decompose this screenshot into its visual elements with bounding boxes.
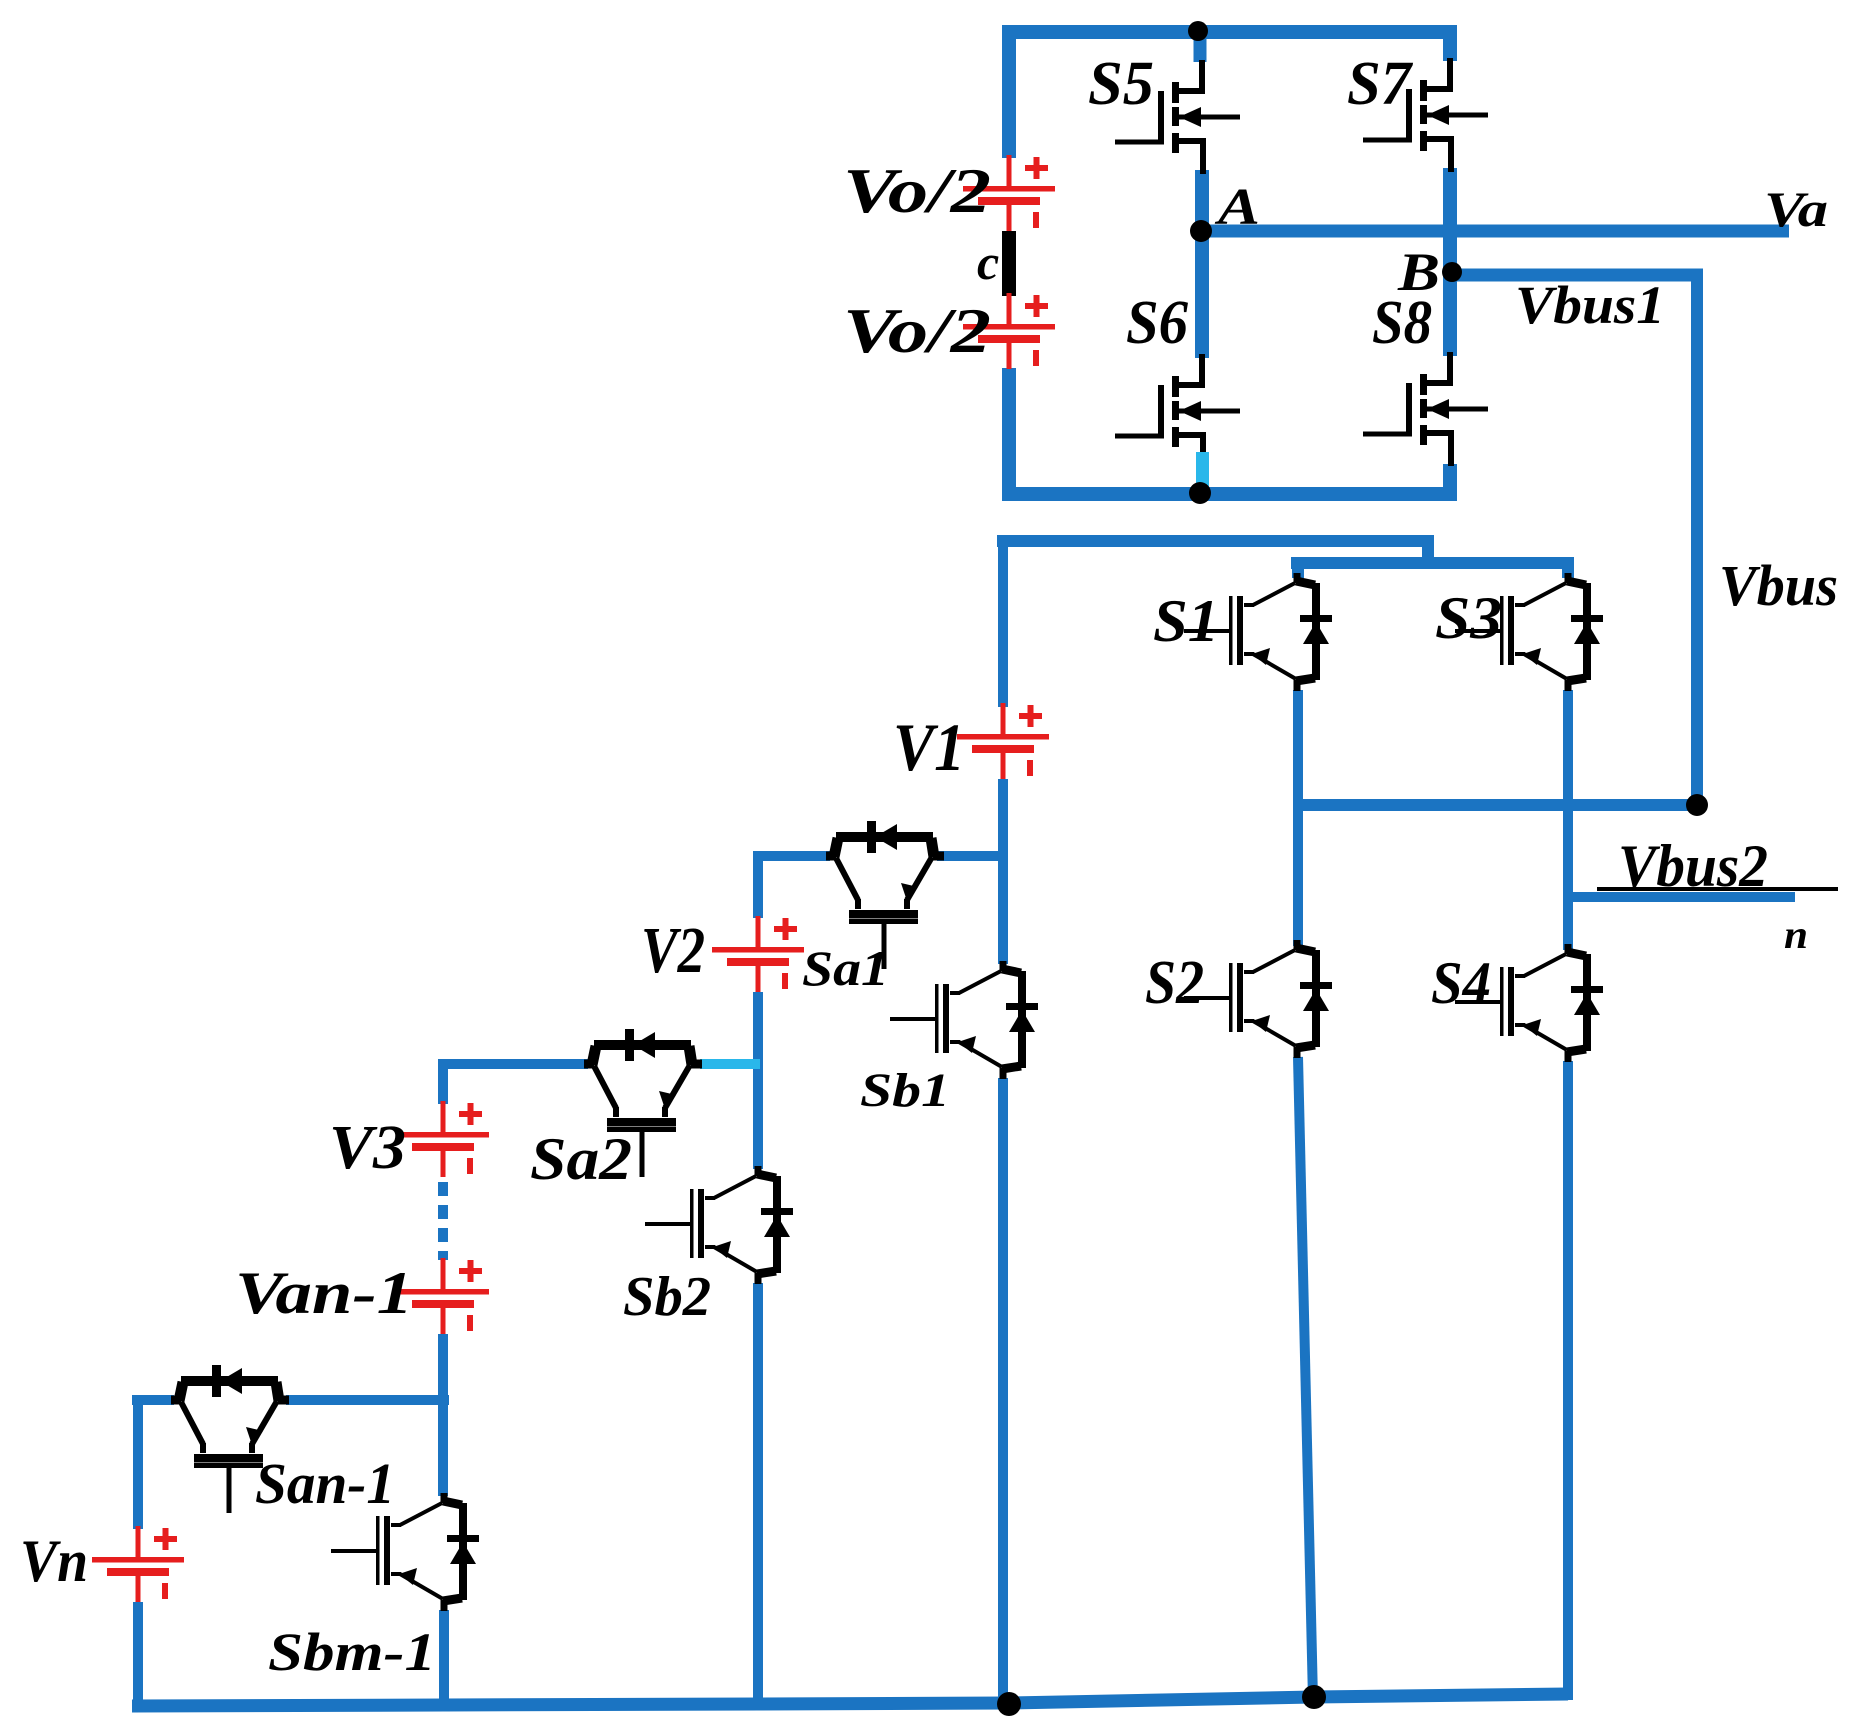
svg-text:Sbm-1: Sbm-1 [268,1622,436,1682]
svg-text:S1: S1 [1153,588,1219,654]
svg-text:S5: S5 [1088,50,1154,118]
svg-text:A: A [1214,179,1260,236]
svg-text:n: n [1784,912,1808,957]
svg-text:Vn: Vn [20,1528,88,1594]
svg-text:Va: Va [1764,181,1828,237]
svg-text:S4: S4 [1431,950,1491,1016]
svg-text:Sb2: Sb2 [623,1266,711,1328]
svg-text:c: c [977,234,999,290]
svg-text:V3: V3 [329,1114,406,1182]
svg-text:S6: S6 [1126,289,1188,357]
svg-text:Sb1: Sb1 [860,1064,950,1117]
svg-text:S3: S3 [1435,585,1502,651]
svg-text:V2: V2 [641,914,705,987]
svg-text:Vo/2: Vo/2 [843,155,991,226]
svg-text:B: B [1397,242,1440,302]
svg-text:S7: S7 [1347,50,1414,118]
svg-text:Vo/2: Vo/2 [843,295,991,366]
svg-text:Vbus2: Vbus2 [1618,833,1768,899]
svg-text:Sa2: Sa2 [530,1126,632,1192]
svg-text:Vbus: Vbus [1719,553,1838,618]
svg-text:San-1: San-1 [255,1451,395,1516]
svg-text:V1: V1 [893,709,965,785]
svg-text:Sa1: Sa1 [802,940,889,996]
svg-text:Vbus1: Vbus1 [1515,275,1665,335]
svg-text:Van-1: Van-1 [235,1260,413,1326]
svg-text:S2: S2 [1145,949,1204,1017]
